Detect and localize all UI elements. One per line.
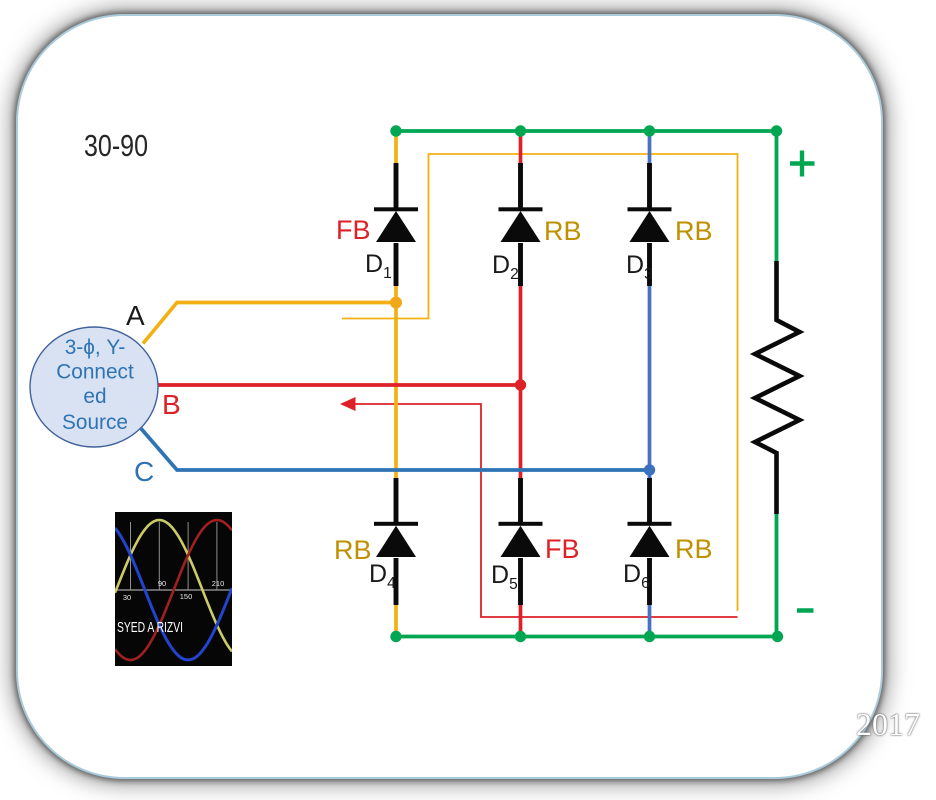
svg-text:D2: D2 (492, 251, 519, 283)
svg-text:150: 150 (180, 592, 193, 601)
svg-text:D1: D1 (365, 250, 392, 282)
svg-text:RB: RB (334, 535, 372, 565)
svg-text:210: 210 (212, 579, 225, 588)
svg-text:30: 30 (123, 593, 131, 602)
svg-text:D4: D4 (369, 560, 396, 592)
svg-text:FB: FB (545, 534, 580, 564)
svg-text:RB: RB (675, 534, 713, 564)
svg-text:ed: ed (83, 385, 106, 408)
svg-text:C: C (134, 456, 154, 487)
svg-text:FB: FB (336, 215, 371, 245)
svg-text:3-ϕ, Y-: 3-ϕ, Y- (65, 336, 126, 359)
svg-text:RB: RB (544, 216, 582, 246)
svg-text:90: 90 (158, 579, 166, 588)
svg-text:SYED A RIZVI: SYED A RIZVI (117, 619, 183, 636)
svg-text:B: B (162, 389, 181, 420)
svg-text:30-90: 30-90 (84, 128, 148, 163)
svg-text:A: A (126, 300, 145, 331)
svg-text:D5: D5 (491, 561, 518, 593)
svg-text:D6: D6 (623, 560, 650, 592)
svg-text:Source: Source (62, 411, 128, 434)
svg-text:Connect: Connect (56, 361, 134, 384)
svg-text:RB: RB (675, 216, 713, 246)
